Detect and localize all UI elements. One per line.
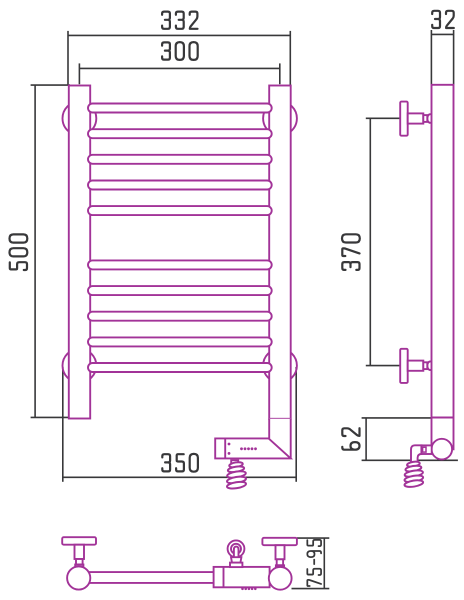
dimension text "332" top width 332 <box>162 12 197 29</box>
heater cable neck (front view) <box>231 460 238 463</box>
dimension text "350" bottom width 350 <box>162 454 198 472</box>
wall bracket circle top-right (front view) <box>263 102 297 136</box>
rung 9 (front view) <box>88 337 272 346</box>
dim 62 line <box>365 418 367 460</box>
heater vent dots (bottom view) <box>241 588 256 591</box>
dim 332 line <box>68 34 290 36</box>
cable elbow (side view) <box>411 445 422 462</box>
cable plug (side view) <box>421 445 431 454</box>
rung 1 (front view) <box>88 104 272 113</box>
rung 7 (front view) <box>88 286 272 295</box>
rung 10 (front view) <box>88 363 272 372</box>
wall bracket circle bottom-left (front view) <box>63 349 97 383</box>
dimension text "500" height 500 <box>10 234 28 270</box>
wall bracket circle bottom-right (front view) <box>263 349 297 383</box>
electric heater box (front view) <box>215 438 291 458</box>
bottom crossbar tube (bottom view) <box>85 571 275 573</box>
right wall bracket (bottom view) <box>262 538 297 567</box>
rung 3 (front view) <box>88 155 272 164</box>
dimension text "32" tube 32 <box>432 11 454 28</box>
dimension text "300" inner width 300 <box>162 42 198 60</box>
right corner ball (bottom view) <box>269 567 292 590</box>
dimension text "370" bracket span 370 <box>342 234 360 270</box>
dimension text "75-95" wall distance 75-95 <box>307 540 321 586</box>
heater housing (bottom view) <box>214 567 270 587</box>
tube joint line (side view) <box>432 417 454 419</box>
left corner ball (bottom view) <box>67 566 90 589</box>
left wall bracket (bottom view) <box>62 537 96 566</box>
heater ball (side view) <box>432 439 453 460</box>
dimension text "62" bottom offset 62 <box>342 428 359 450</box>
heater cable coil (side view) <box>404 461 424 488</box>
dim 350 line <box>63 476 296 478</box>
rung 4 (front view) <box>88 181 272 190</box>
dim 75-95 line <box>323 538 325 589</box>
heater indicator dots <box>228 443 257 455</box>
dim 32 line <box>431 33 453 35</box>
heater cable coil (front view) <box>227 461 247 489</box>
rung 8 (front view) <box>88 312 272 321</box>
left vertical tube (front view) <box>69 86 90 419</box>
vertical tube (side view) <box>432 85 454 450</box>
rung 5 (front view) <box>88 206 272 215</box>
cable coil end-on ring (bottom view) <box>228 540 245 567</box>
right tube lower extension <box>269 419 291 459</box>
wall bracket circle top-left (front view) <box>63 102 97 136</box>
right vertical tube (front view) <box>269 86 291 419</box>
wall bracket bottom (side view) <box>400 349 433 383</box>
heater box cap line <box>224 438 226 458</box>
rung 2 (front view) <box>88 129 272 138</box>
rung 6 (front view) <box>88 260 272 269</box>
dim 370 line <box>369 118 371 365</box>
dim 300 line <box>79 67 279 69</box>
heater housing cap line (bottom view) <box>223 567 225 587</box>
dim 500 line <box>34 85 36 417</box>
wall bracket top (side view) <box>400 102 433 136</box>
